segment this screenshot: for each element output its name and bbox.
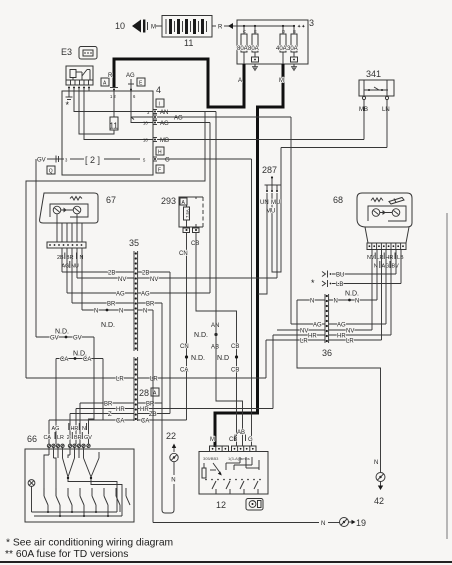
svg-text:N: N [321,521,325,527]
svg-text:BR: BR [107,302,116,308]
svg-text:R: R [218,25,223,31]
svg-text:CB: CB [231,368,239,374]
unit 12 internals [202,456,261,494]
svg-text:E: E [254,29,257,34]
svg-text:A: A [238,78,242,84]
wire LN from 341 to connector 287 [272,100,387,273]
svg-text:BR: BR [146,302,155,308]
svg-text:I: I [159,102,160,108]
svg-text:HR: HR [337,334,346,340]
wire loop around gauge 22 [162,403,174,513]
svg-text:AG: AG [141,292,150,298]
headlamp 68 wire labels [367,253,404,270]
svg-text:3: 3 [309,18,314,28]
svg-text:LR: LR [57,435,64,441]
svg-text:GV: GV [84,435,92,441]
wire AG through strip 35 [67,292,210,298]
battery 11 [162,16,212,49]
wire BR through strip 35 [72,302,162,308]
svg-text:B: B [293,29,296,34]
wire AN down to AB into unit 12 [216,112,243,447]
wire BR through strip 28 [80,303,162,444]
wire MB from unit 4 to 341 [157,138,364,144]
unit 4 internal wire to MB [84,91,153,143]
svg-text:4: 4 [156,85,161,95]
wire N through strip 35 with junction [82,309,153,315]
svg-text:Q: Q [49,169,53,175]
svg-text:H: H [158,150,162,156]
svg-text:F: F [158,168,161,174]
svg-text:341: 341 [366,69,381,79]
svg-text:BR: BR [74,435,82,441]
connector 287 [260,165,281,215]
wire CA junction [56,351,103,445]
node AN/AB with N.D. [194,323,219,351]
svg-text:BV: BV [392,264,400,270]
svg-text:NV: NV [346,329,354,335]
svg-text:305/BB3: 305/BB3 [203,456,219,461]
svg-text:MB: MB [160,138,169,144]
svg-text:N: N [171,478,175,484]
svg-text:D: D [282,29,285,34]
svg-text:N: N [310,299,314,305]
svg-text:68: 68 [333,195,343,205]
svg-text:AN: AN [160,110,168,116]
connector label F [156,165,164,174]
wire NV through strip 35 to 287/36 [77,277,277,283]
connector label H [156,147,164,156]
headlamp 67 [40,193,116,223]
unit 4 internal wires pin 6 to AG [131,91,153,126]
svg-text:Z: Z [108,412,112,418]
svg-text:12: 12 [216,500,226,510]
svg-text:AG: AG [337,323,346,329]
svg-text:GV: GV [73,336,82,342]
svg-text:5: 5 [143,158,146,163]
page right border [446,213,448,539]
svg-text:287: 287 [262,165,277,175]
svg-text:CA: CA [60,357,68,363]
headlamp 67 connector [47,242,86,248]
svg-text:HR: HR [386,255,394,261]
svg-text:* See air conditioning wiring: * See air conditioning wiring diagram [6,538,173,549]
wire LR through strip 36 [266,339,382,379]
wire MU from 287 to node 36 NV [276,193,278,278]
svg-text:N: N [82,426,86,432]
gauge 22 [166,431,178,510]
headlamp 67 drop wires [62,248,82,310]
wire UN from 287 [258,193,267,294]
headlamp 68 drop wires [372,250,401,341]
svg-text:N: N [334,299,338,305]
svg-text:G: G [165,158,170,164]
svg-text:C: C [243,29,246,34]
wire G from unit 4 to unit 12 [157,158,252,447]
svg-text:N.D.: N.D. [101,322,115,329]
svg-text:N.D.: N.D. [191,355,205,362]
svg-text:AG: AG [382,264,390,270]
svg-text:80A: 80A [248,46,259,52]
unit 4 right edge pins [147,110,157,162]
svg-text:LR: LR [300,339,308,345]
fuse box 3 [237,18,314,64]
wire N to ground 19 [153,310,340,527]
svg-text:36: 36 [322,348,332,358]
unit 4 internal wire to AN [74,91,153,112]
svg-text:LR: LR [116,377,124,383]
ground 19 [340,518,367,529]
svg-text:CA: CA [116,419,124,425]
wire AG through strip 36 [291,323,386,329]
svg-text:28: 28 [139,388,149,398]
svg-text:1(3-A)lamps: 1(3-A)lamps [228,456,250,461]
svg-text:AG: AG [174,116,183,122]
svg-text:3: 3 [147,110,150,115]
headlamp 68 [333,193,412,243]
switch 341 [359,69,394,113]
svg-text:GV: GV [37,158,46,164]
connector strip 35 [129,238,139,351]
svg-text:66: 66 [27,434,37,444]
wire NV through strip 36 [277,329,372,335]
unit 66 internals [28,448,122,517]
relay E3 [61,47,97,60]
thick wire M : fuse3 down to unit 12 [215,64,284,447]
svg-text:19: 19 [356,518,366,528]
wire CA through strip 28 [49,419,187,445]
wire MB from 341 [363,100,365,140]
svg-text:NV: NV [118,277,126,283]
svg-text:M: M [151,25,156,31]
ground 42 [374,460,385,506]
svg-text:35: 35 [129,238,139,248]
ground symbol 10 [115,20,156,33]
svg-text:80A: 80A [237,46,248,52]
wire CN from 293 [179,233,188,421]
svg-text:AB: AB [237,430,245,436]
svg-text:N.D.: N.D. [55,329,69,336]
connector strip 36 [322,294,332,358]
wire 2B through strip 35 [62,271,170,277]
svg-text:MU: MU [271,200,280,206]
svg-text:HR: HR [140,407,149,413]
svg-text:N: N [374,460,378,466]
connector BU with asterisk [322,271,396,279]
wire GV junction [36,329,94,445]
svg-text:*: * [66,100,70,110]
svg-text:M: M [279,78,284,84]
unit 12 input labels [210,430,253,443]
wire N from 68 through 36 to ground 42 [297,299,381,473]
unit 66 connector pins [47,444,90,447]
wire HR through strip 28 to 36 [76,335,273,444]
wire M to battery 11 [156,25,162,27]
svg-text:** 60A fuse for TD versions: ** 60A fuse for TD versions [5,549,128,560]
wire LR through strips [26,377,266,383]
svg-text:LB: LB [397,255,404,261]
page bottom border [0,561,452,563]
svg-text:R: R [108,73,113,79]
connector label E [137,78,145,87]
svg-text:HR: HR [71,426,79,432]
svg-text:N: N [119,309,123,315]
unit 4 internal wire G row with [2] [62,155,146,165]
wire Z/ZB through strip 28 [70,272,170,444]
svg-text:22: 22 [166,431,176,441]
svg-text:HR: HR [116,407,125,413]
svg-text:CA: CA [180,368,188,374]
svg-text:67: 67 [106,195,116,205]
svg-text:N.D: N.D [217,355,229,362]
svg-text:CB: CB [229,437,237,443]
svg-text:M: M [210,437,215,443]
svg-text:CN: CN [179,251,188,257]
connector strip 28 [134,357,159,421]
svg-text:N: N [80,255,84,261]
svg-text:NV: NV [367,255,375,261]
wire GV vertical from unit 4 [35,159,37,337]
svg-text:CB: CB [191,241,199,247]
svg-text:7.5A: 7.5A [185,209,190,218]
unit 66 input labels [44,423,93,441]
svg-text:LR: LR [346,339,354,345]
svg-text:30A: 30A [287,46,298,52]
svg-text:AB: AB [211,345,219,351]
headlamp 67 leads [57,214,82,242]
svg-text:3: 3 [65,158,68,163]
svg-text:2B: 2B [142,271,149,277]
node CN/CA with N.D. [180,344,205,374]
svg-text:AG: AG [160,121,169,127]
svg-text:11: 11 [110,122,119,131]
headlamp 68 connector [367,243,406,250]
svg-text:HR: HR [308,334,317,340]
wire AG from unit 4 to node 35 [157,121,210,293]
pin R top of unit 4 [108,73,118,99]
svg-text:AG: AG [52,426,60,432]
svg-text:BU: BU [336,273,344,279]
svg-text:LN: LN [382,107,390,113]
switch unit 66 [25,434,134,522]
svg-text:AG: AG [116,292,125,298]
svg-text:✦✦: ✦✦ [297,24,305,30]
loop wire from unit 4 around left to LR [26,112,205,379]
svg-text:LR: LR [150,377,158,383]
wire CB from 293 to unit 12 [191,233,237,447]
connector LB [322,280,401,288]
svg-text:CA: CA [44,435,52,441]
thick wire A : fuse1 to unit 4 pin R [114,59,244,107]
svg-text:AN: AN [211,323,219,329]
ground inside unit 4 with asterisk [66,91,73,110]
svg-text:2B: 2B [57,255,64,261]
wire AN from unit 4 [157,110,216,116]
connector label Q [47,166,55,175]
fuse 293 [161,196,203,233]
svg-text:AG: AG [126,73,135,79]
svg-text:N.D.: N.D. [194,332,208,339]
svg-text:10: 10 [143,121,148,126]
svg-text:N: N [355,299,359,305]
svg-text:CA: CA [141,419,149,425]
svg-text:BR: BR [104,402,113,408]
svg-text:*: * [311,278,315,288]
fuse 40A (D) [276,26,287,64]
svg-text:2B: 2B [108,271,115,277]
svg-text:N: N [143,309,147,315]
svg-text:GV: GV [50,336,59,342]
svg-text:MB: MB [359,107,368,113]
control unit 4 [62,85,164,175]
svg-text:CB: CB [231,344,239,350]
svg-text:G: G [248,437,253,443]
svg-text:E3: E3 [61,47,72,57]
unit 66 contact row [32,488,131,517]
svg-text:18: 18 [143,138,148,143]
svg-text:[ 2 ]: [ 2 ] [85,155,100,165]
svg-text:AG: AG [62,264,70,270]
svg-text:LB: LB [336,282,343,288]
GV input with connector symbol [37,156,62,164]
svg-text:LR: LR [377,255,384,261]
svg-text:AG: AG [313,323,322,329]
svg-text:2: 2 [67,435,70,441]
svg-text:10: 10 [115,21,125,31]
svg-text:42: 42 [374,496,384,506]
resistor 11 inside unit 4 [79,91,118,134]
connector label A [101,78,109,87]
svg-text:NV: NV [150,277,158,283]
wire HR through strip 36 [273,334,391,340]
wire AG from unit 4 to node 36 [157,116,291,325]
fuse 30A (B) [287,26,298,71]
svg-text:CA: CA [83,357,91,363]
svg-text:40A: 40A [276,46,287,52]
heater unit 12 [199,446,268,510]
fuse 80A (E) [248,26,259,71]
svg-text:6: 6 [133,94,136,99]
headlamp 67 wire labels [57,253,84,270]
svg-text:1 2: 1 2 [110,94,116,99]
svg-text:11: 11 [184,38,193,48]
svg-text:CN: CN [180,344,189,350]
fuse 80A (C) [237,26,248,64]
node CB with N.D. [217,344,239,374]
svg-text:293: 293 [161,196,176,206]
fan icon next to 12 [246,499,263,511]
svg-text:N.D.: N.D. [345,291,359,298]
wire battery R to fusebox 3 [212,23,237,31]
pin AG top of unit 4 [126,73,136,99]
svg-text:N: N [94,309,98,315]
